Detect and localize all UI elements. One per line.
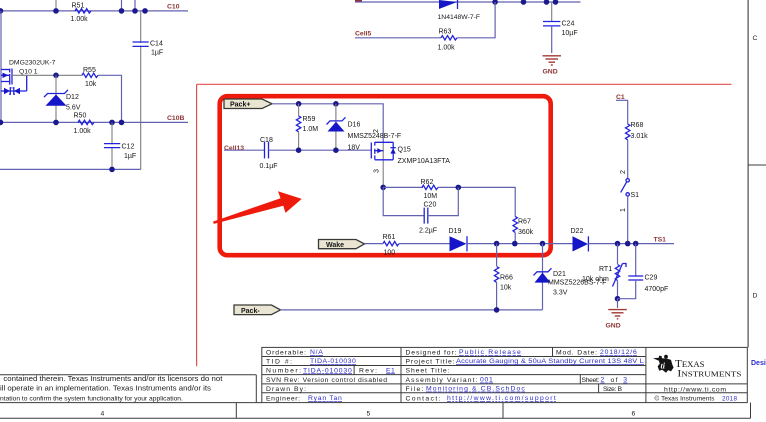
svg-text:2018: 2018: [722, 396, 737, 403]
net label stub above wire: [355, 0, 362, 2]
resistor R50: [74, 112, 95, 134]
svg-text:1.00k: 1.00k: [438, 44, 456, 51]
svg-text:5.6V: 5.6V: [66, 104, 81, 111]
svg-text:2: 2: [373, 129, 380, 133]
svg-text:Size: B: Size: B: [603, 386, 622, 393]
svg-text:S1: S1: [631, 192, 640, 199]
svg-text:R63: R63: [439, 28, 452, 35]
svg-text:1.00k: 1.00k: [74, 128, 92, 135]
svg-text:Rev:: Rev:: [359, 368, 377, 375]
svg-text:2: 2: [601, 377, 605, 384]
svg-text:C10: C10: [167, 3, 180, 10]
svg-text:D16: D16: [348, 122, 361, 129]
wire vertical C14 branch: [140, 11, 142, 170]
zone letter D: [753, 293, 758, 300]
svg-text:Q15: Q15: [398, 146, 411, 153]
svg-text:D: D: [753, 293, 758, 300]
svg-text:R55: R55: [83, 67, 96, 74]
wire Cell5 row: [355, 37, 441, 39]
svg-text:1µF: 1µF: [151, 50, 163, 57]
svg-text:TIDA-010030: TIDA-010030: [303, 367, 352, 374]
wire R63 to top row corner: [457, 2, 495, 38]
wire R62 row: [383, 186, 423, 188]
title block row 5: [266, 386, 622, 393]
wire R62 right to R67 corner: [438, 187, 515, 216]
node dots C10B row: [0, 120, 124, 126]
svg-text:INSTRUMENTS: INSTRUMENTS: [677, 368, 741, 378]
diode D? 1N4148W-7-F: [438, 0, 481, 21]
annotation red rounded rectangle: [220, 96, 551, 255]
title block row 2: [266, 358, 644, 365]
resistor R62: [421, 179, 439, 200]
resistor R63: [438, 28, 458, 51]
node Cell13 label: [224, 145, 244, 152]
wire D12 vertical: [55, 75, 57, 122]
node dot gate row: [53, 73, 59, 79]
svg-text:10M: 10M: [424, 193, 438, 200]
title block row 1: [266, 349, 637, 356]
svg-text:Q10 1: Q10 1: [19, 68, 38, 75]
svg-text:ntation to confirm the system: ntation to confirm the system functional…: [0, 396, 183, 403]
svg-text:TIDA-010030: TIDA-010030: [310, 358, 356, 365]
wire switch to TS1 row: [627, 196, 629, 244]
svg-text:GND: GND: [543, 69, 558, 76]
wire C12 vertical: [111, 122, 113, 169]
svg-text:1µF: 1µF: [124, 153, 136, 160]
node dot bottom row: [109, 167, 115, 173]
wire R68 to switch: [627, 140, 629, 179]
svg-text:R66: R66: [500, 275, 513, 282]
svg-text:R51: R51: [72, 2, 85, 9]
svg-text:1.00k: 1.00k: [71, 16, 89, 23]
svg-text:Accurate Gauging & 50uA Standb: Accurate Gauging & 50uA Standby Current …: [456, 358, 644, 365]
wire R55 right corner down: [98, 75, 122, 122]
svg-text:Orderable:: Orderable:: [266, 349, 306, 356]
wire Cell13 row left: [224, 149, 264, 151]
svg-text:R59: R59: [303, 116, 316, 123]
transistor Q15 ZXMP10A13FTA: [371, 129, 450, 173]
wire left vertical rail: [0, 11, 2, 123]
wire Pack- bottom rail: [281, 309, 543, 311]
svg-text:10k: 10k: [500, 285, 512, 292]
wire stub up at x56: [55, 0, 57, 11]
wire bottom row left fragment: [0, 168, 141, 170]
svg-text:Monitoring & CB.SchDoc: Monitoring & CB.SchDoc: [426, 386, 525, 393]
svg-text:3.3V: 3.3V: [553, 290, 568, 297]
svg-text:DMG2302UK-7: DMG2302UK-7: [9, 59, 56, 66]
wire C29 bottom to GND node: [618, 280, 636, 299]
port Pack+: [224, 99, 272, 109]
node dot R62 right: [456, 185, 462, 191]
svg-text:ZXMP10A13FTA: ZXMP10A13FTA: [398, 158, 451, 165]
svg-text:Drawn By:: Drawn By:: [266, 386, 306, 393]
resistor R61: [383, 234, 400, 256]
svg-text:4: 4: [101, 411, 105, 418]
node C10 label: [167, 3, 180, 10]
svg-text:0.1µF: 0.1µF: [260, 163, 278, 170]
svg-text:MMSZ5248B-7-F: MMSZ5248B-7-F: [348, 133, 402, 140]
svg-text:Wake: Wake: [326, 242, 344, 249]
svg-text:D19: D19: [449, 228, 462, 235]
wire RT1 vertical top: [617, 244, 619, 264]
svg-text:File:: File:: [406, 386, 424, 393]
wire Q15 drain-source vertical: [382, 142, 384, 188]
svg-text:Sheet Title:: Sheet Title:: [406, 368, 450, 375]
port Pack-: [234, 305, 281, 315]
node dots Pack+ row: [296, 101, 339, 107]
ground GND (C24): [543, 56, 562, 65]
svg-text:360k: 360k: [518, 229, 534, 236]
svg-text:Desi: Desi: [751, 360, 766, 367]
svg-text:Cell13: Cell13: [224, 145, 244, 152]
capacitor C12: [104, 144, 136, 160]
svg-text:C: C: [753, 35, 758, 42]
adjacent sheet text Desi: [751, 360, 766, 367]
title block row 6: [266, 395, 556, 402]
svg-text:D22: D22: [571, 228, 584, 235]
node Cell5 label: [355, 31, 371, 38]
svg-text:R50: R50: [74, 112, 87, 119]
wire Cell13 row right to gate: [269, 149, 372, 151]
wire D22 to TS1 end: [588, 243, 674, 245]
svg-text:RT1: RT1: [599, 266, 612, 273]
resistor R51: [71, 2, 92, 23]
wire C24 vertical: [551, 2, 553, 21]
svg-text:C10B: C10B: [167, 115, 184, 122]
svg-text:Public Release: Public Release: [459, 349, 521, 356]
resistor R66: [494, 244, 513, 310]
wire D19 to box edge: [467, 243, 573, 245]
resistor R59: [296, 104, 318, 150]
wire top row net: [355, 1, 581, 3]
sheet border thin red line horizontal: [197, 83, 732, 85]
sheet border right vertical black: [747, 0, 749, 347]
svg-text:Mod. Date:: Mod. Date:: [556, 349, 597, 356]
resistor R68: [626, 122, 649, 140]
ground GND (TS1): [606, 299, 627, 330]
node dot R62 row: [380, 185, 386, 191]
title block row 3: [266, 367, 450, 374]
svg-text:Sheet:: Sheet:: [582, 377, 600, 384]
svg-text:http://www.ti.com/support: http://www.ti.com/support: [447, 395, 556, 402]
resistor R55: [82, 67, 98, 88]
svg-text:1.0M: 1.0M: [303, 126, 319, 133]
svg-text:D12: D12: [66, 94, 79, 101]
zener D12: [44, 90, 81, 112]
svg-text:TS1: TS1: [654, 236, 667, 243]
svg-text:5: 5: [367, 411, 371, 418]
wire Wake row: [365, 243, 384, 245]
svg-text:3: 3: [374, 169, 381, 173]
wire net C10B row: [0, 121, 188, 123]
svg-text:Cell5: Cell5: [355, 31, 371, 38]
svg-text:ti: ti: [661, 362, 666, 371]
capacitor C20: [419, 202, 437, 235]
transistor Q10 DMG2302UK-7: [1, 59, 56, 94]
wire C1 down to R68: [627, 100, 629, 124]
zone letter C: [753, 35, 758, 42]
annotation red arrow: [213, 191, 302, 224]
svg-text:10µF: 10µF: [562, 30, 578, 37]
svg-text:100: 100: [384, 249, 396, 256]
node TS1 label: [654, 236, 667, 243]
svg-text:4700pF: 4700pF: [645, 286, 669, 293]
wire RT1 bottom to GND node: [617, 281, 619, 299]
node dot bottom rail: [494, 307, 500, 313]
capacitor C18: [260, 137, 278, 170]
svg-text:http://www.ti.com: http://www.ti.com: [664, 386, 726, 393]
wire stub up at x135: [134, 0, 136, 11]
logo Texas Instruments: [653, 355, 742, 403]
svg-text:Engineer:: Engineer:: [266, 395, 300, 402]
svg-text:3: 3: [623, 377, 627, 384]
svg-text:Pack-: Pack-: [241, 308, 260, 315]
svg-text:D21: D21: [553, 271, 566, 278]
svg-text:2018/12/6: 2018/12/6: [600, 349, 637, 356]
svg-text:C14: C14: [150, 40, 163, 47]
svg-text:of: of: [611, 377, 618, 384]
svg-text:C18: C18: [260, 137, 273, 144]
svg-text:Number:: Number:: [266, 368, 301, 375]
wire R61 to D19: [399, 243, 450, 245]
svg-text:C12: C12: [122, 144, 135, 151]
svg-text:C24: C24: [562, 20, 575, 27]
diode D22: [571, 228, 589, 251]
svg-text:E1: E1: [386, 367, 395, 374]
svg-text:Designed for:: Designed for:: [406, 349, 457, 356]
svg-text:MMSZ5226BS-7-F: MMSZ5226BS-7-F: [548, 280, 606, 287]
sheet border thin red line vertical: [196, 84, 198, 366]
svg-text:2.2µF: 2.2µF: [419, 228, 437, 235]
node dots Wake row: [494, 241, 545, 247]
svg-text:6: 6: [632, 411, 636, 418]
svg-text:TID #:: TID #:: [266, 358, 292, 365]
zener D21: [534, 244, 607, 310]
svg-text:Pack+: Pack+: [230, 102, 250, 109]
wire C29 vertical: [635, 244, 637, 276]
svg-text:3.01k: 3.01k: [631, 133, 649, 140]
svg-text:1: 1: [620, 208, 627, 212]
wire C20 loop: [383, 187, 424, 215]
node C1 label: [616, 94, 628, 101]
capacitor C24: [543, 20, 578, 37]
diode D19: [449, 228, 468, 251]
wire Q10 gate row to R55: [12, 74, 82, 76]
svg-text:1N4148W-7-F: 1N4148W-7-F: [438, 14, 481, 21]
node dots TS1 row: [615, 241, 639, 247]
resistor R67: [513, 217, 534, 244]
svg-text:001: 001: [480, 377, 493, 384]
svg-text:C20: C20: [424, 202, 437, 209]
svg-text:Assembly Variant:: Assembly Variant:: [406, 377, 478, 384]
svg-text:10k: 10k: [85, 81, 97, 88]
wire net C10 top row: [0, 10, 188, 12]
node C10B label: [167, 115, 184, 122]
capacitor C14: [133, 40, 164, 56]
wire Pack+ row: [272, 104, 383, 142]
svg-text:ill operate in an implementati: ill operate in an implementation. Texas …: [0, 385, 212, 392]
node dots Cell13 row: [296, 147, 339, 153]
wire stub up at x121.5: [121, 0, 123, 11]
svg-text:R62: R62: [421, 179, 434, 186]
svg-text:GND: GND: [606, 322, 621, 329]
thermistor RT1: [582, 264, 626, 287]
svg-text:C29: C29: [645, 275, 658, 282]
zener D16: [327, 104, 402, 152]
svg-text:R68: R68: [631, 122, 644, 129]
node dot GND junction: [615, 296, 621, 302]
node dots top wire: [492, 0, 558, 5]
wire C24 to GND: [551, 26, 553, 53]
svg-text:Project Title:: Project Title:: [406, 358, 455, 365]
svg-text:contained therein. Texas Instr: contained therein. Texas Instruments and…: [3, 376, 222, 383]
svg-text:R61: R61: [383, 234, 396, 241]
svg-text:N/A: N/A: [310, 349, 323, 356]
wire C20 right side: [428, 187, 459, 215]
switch S1: [620, 170, 639, 212]
port Wake: [319, 240, 365, 250]
node junction dots top row: [0, 8, 148, 14]
svg-text:R67: R67: [518, 219, 531, 226]
svg-text:SVN Rev: Version control di: SVN Rev: Version control disabled: [266, 377, 387, 384]
svg-text:© Texas Instruments: © Texas Instruments: [655, 395, 715, 403]
svg-text:Contact:: Contact:: [406, 395, 441, 402]
title block row 4: [266, 377, 627, 384]
sheet border zone divider right: [748, 164, 766, 166]
svg-text:2: 2: [620, 170, 627, 174]
svg-text:Ryan Tan: Ryan Tan: [308, 395, 342, 402]
capacitor C29: [628, 275, 668, 293]
